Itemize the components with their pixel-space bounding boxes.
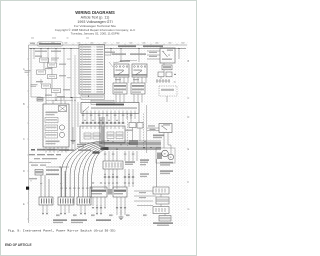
svg-text:END OF ARTICLE: END OF ARTICLE [5, 243, 32, 247]
harness junction dots [107, 140, 151, 150]
grid letters left [23, 68, 25, 206]
component box K1 [162, 65, 172, 70]
scan haze overlay [28, 41, 188, 226]
wires below connector D [92, 182, 126, 215]
svg-text:B: B [188, 60, 190, 63]
bottom connector B [58, 197, 74, 205]
header article line [81, 16, 110, 20]
fan wire tags [60, 188, 92, 189]
wire switch to motors [164, 133, 171, 155]
label hot at all times [30, 42, 63, 46]
label row left B [29, 154, 61, 155]
grid numbers bottom [56, 214, 147, 216]
right cluster wires [134, 191, 165, 216]
wires below connectors [116, 94, 142, 103]
fuse S1 [40, 58, 60, 63]
wires into cluster top [46, 98, 65, 105]
label switch row [112, 53, 146, 55]
harness drops mid [105, 151, 137, 161]
end of article note [5, 243, 32, 247]
module box J1 [80, 126, 102, 143]
component pair boxes [158, 72, 176, 77]
svg-text:M: M [164, 154, 166, 156]
svg-text:E: E [188, 148, 190, 151]
switch E1 [109, 62, 129, 77]
wires under switches [116, 77, 146, 83]
wire top bus right [105, 48, 187, 50]
right box R1 [153, 187, 169, 194]
fuse S6 [52, 89, 71, 93]
wire left run B [46, 166, 69, 167]
label left D [31, 158, 57, 166]
wires mid drop [105, 169, 133, 189]
terminal legend box [79, 45, 105, 95]
wire color tags mid [115, 79, 139, 80]
wire fuse drops [34, 49, 71, 101]
right box R2 [156, 197, 169, 204]
module box J2 [104, 126, 125, 143]
wires dashed module [131, 114, 140, 142]
label row left A [31, 149, 57, 151]
header vehicle line [77, 20, 112, 24]
bottom connector D [90, 187, 107, 197]
svg-text:WIRING DIAGRAMS: WIRING DIAGRAMS [75, 10, 115, 15]
wires right drops [161, 48, 180, 102]
wire left run A [29, 161, 51, 162]
ground bottom mid [119, 210, 124, 220]
grid left rule [27, 45, 28, 223]
connector bar row [104, 174, 134, 177]
dashed module box [126, 114, 145, 149]
svg-text:C: C [188, 97, 190, 100]
instrument panel box [81, 103, 139, 114]
labels under cluster [43, 149, 69, 151]
wire right column long [156, 159, 158, 187]
dashed option box top [159, 86, 177, 96]
labels under module J1 [77, 144, 86, 147]
bottom connector C [77, 197, 91, 205]
wire cross runs [41, 97, 81, 101]
right box R4 [159, 216, 171, 222]
bottom connector A [39, 197, 53, 205]
grid letters right [188, 60, 190, 211]
faint page marks top [31, 37, 89, 38]
left vertical wires [40, 167, 65, 197]
svg-text:Tuesday, January 02, 2001 11:: Tuesday, January 02, 2001 11:05PM [71, 32, 120, 36]
relay box [160, 48, 175, 63]
bottom wires down [42, 205, 101, 214]
wire color tags harness [104, 154, 135, 155]
connector fork row [156, 79, 176, 83]
switch E4 [132, 64, 147, 77]
junction dots on feed bus [33, 48, 71, 49]
labels right of component [46, 169, 59, 175]
label between connectors [108, 189, 112, 195]
connector strip row [82, 120, 125, 123]
component M1 [103, 161, 135, 169]
wire gap bundle [100, 117, 104, 147]
labels right mid [140, 173, 149, 177]
labels right column [160, 162, 173, 174]
ground bottom right of switch [104, 197, 105, 208]
panel drop wires [83, 114, 135, 124]
header date line [71, 32, 120, 36]
svg-text:D: D [188, 116, 190, 119]
label small left [29, 178, 37, 182]
wire left branch [30, 48, 41, 97]
harness bundle fan [62, 141, 162, 197]
svg-text:B: B [23, 103, 25, 106]
label top bus B [143, 45, 163, 47]
wire feeds mirror switch [147, 105, 160, 153]
grid numbers top [38, 42, 184, 43]
label row left C [34, 158, 51, 159]
grid marker arrow left [26, 187, 29, 190]
grid top rule [29, 44, 188, 45]
mirror motor assembly [156, 148, 175, 163]
component small left [35, 170, 43, 176]
ground under connector [71, 127, 76, 143]
svg-text:F: F [188, 181, 190, 184]
wires out of cluster bottom [46, 147, 66, 153]
label mid A [59, 149, 91, 151]
label bus feed [35, 51, 61, 53]
fuse S2 [48, 63, 67, 67]
connector small top [37, 98, 43, 101]
wires right of cluster [67, 55, 78, 151]
connector T1 [113, 83, 127, 94]
bottom connector E [113, 187, 127, 197]
svg-text:G: G [188, 208, 190, 211]
wire fuse outputs [41, 63, 56, 100]
fuse S3 [25, 70, 46, 74]
mirror switch label [153, 135, 164, 139]
svg-text:Fig. 9: Instrument Panel, Pow: Fig. 9: Instrument Panel, Power Mirror S… [8, 229, 116, 233]
instrument cluster box [43, 104, 69, 147]
figure caption [8, 229, 116, 233]
bottom labels row [53, 219, 111, 223]
pin number labels under panel [82, 115, 133, 116]
header title [75, 10, 115, 15]
wire color labels left [35, 56, 65, 98]
header copyright line [55, 28, 136, 32]
right box R3 [153, 207, 169, 214]
label M2 [140, 159, 149, 165]
legend caption strip [81, 95, 105, 99]
connector T2 [131, 83, 145, 94]
fuse S4 [48, 75, 67, 79]
label top bus A [118, 45, 136, 47]
svg-text:10: 10 [174, 81, 176, 83]
mid drop tags [104, 183, 134, 184]
svg-text:E: E [23, 203, 25, 206]
harness apex blobs [93, 147, 109, 153]
wire switch feeds [105, 48, 140, 62]
bottom right labels [153, 222, 173, 226]
header site line [74, 24, 116, 28]
legend caption strip 2 [91, 100, 114, 104]
wire main feed bus [29, 48, 79, 50]
mirror switch box [159, 124, 172, 133]
svg-text:C: C [23, 138, 25, 141]
fuse S5 [31, 84, 51, 88]
wires into relay [147, 51, 160, 59]
svg-text:D: D [23, 170, 25, 173]
label between switches [113, 60, 137, 63]
